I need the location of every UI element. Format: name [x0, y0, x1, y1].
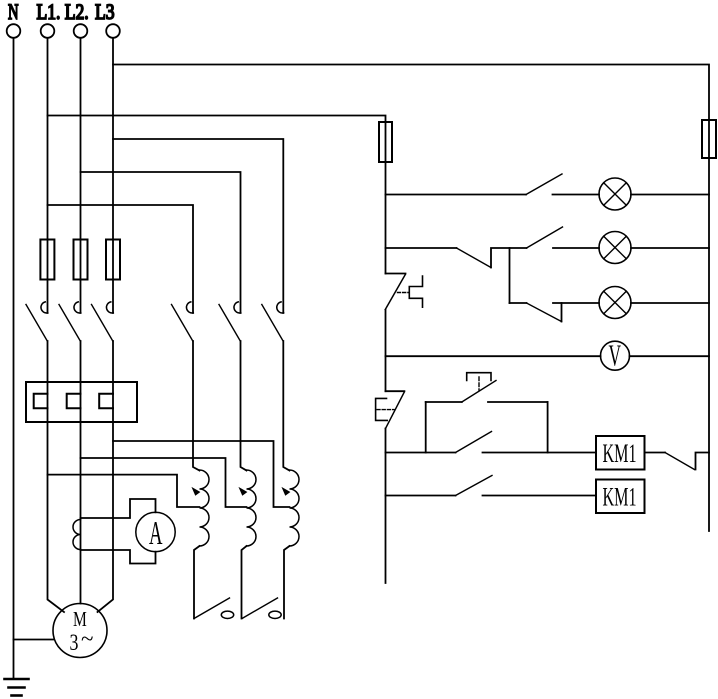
wire L2 contact to thermal relay — [80, 341, 82, 382]
wire L3 to right fuse (top feed) — [113, 65, 709, 159]
fuse FU5 control right — [702, 120, 716, 158]
row 2: wire to lamp — [553, 247, 599, 249]
wire L1 contact to thermal relay — [47, 341, 49, 382]
row 6: wire from left rail — [386, 495, 456, 497]
wire L1 to control fuse — [48, 116, 386, 163]
svg-text:V: V — [609, 340, 622, 373]
stub row3 — [561, 303, 563, 322]
wire loop left vertical — [425, 402, 427, 453]
thermal relay FR heater A — [34, 382, 48, 422]
fuse FU4 control left — [379, 122, 392, 162]
wire tap L3 to autotransformer 3 — [113, 441, 290, 507]
svg-text:L2.: L2. — [65, 0, 89, 24]
ground — [5, 679, 29, 696]
wire left control rail upper — [385, 162, 387, 274]
thermal relay FR heater C — [99, 382, 113, 422]
wire contact to coil 1 — [193, 341, 200, 471]
autotransformer coil T2 — [240, 470, 257, 546]
switch SA2 on left rail — [376, 391, 405, 428]
wire coil 1 bottom — [194, 546, 200, 619]
wire L3 contact to thermal relay — [112, 341, 114, 382]
wire loop right vertical — [547, 402, 549, 453]
row 3: wire lamp to right rail — [631, 302, 709, 304]
voltmeter V — [601, 340, 630, 373]
current transformer on L2 — [73, 520, 81, 550]
svg-text:L1.: L1. — [37, 0, 61, 24]
contactor KM main contact phase C — [262, 302, 284, 341]
thermal relay FR box — [26, 382, 137, 422]
svg-text:N: N — [8, 0, 19, 25]
wire L2 vertical upper — [80, 38, 82, 313]
breaker contact QS phase B — [59, 302, 81, 341]
wire contact to coil 3 — [283, 341, 289, 471]
wire coil 3 bottom — [284, 546, 290, 619]
wire L2 to motor — [80, 422, 82, 604]
contactor coil KM1 — [596, 436, 645, 470]
autotransformer coil T1 — [193, 470, 210, 546]
breaker contact QS phase A — [26, 302, 48, 341]
row 3: wire from drop — [510, 302, 527, 304]
wire left control rail lower — [385, 429, 387, 584]
row 2: wire lamp to right rail — [631, 247, 709, 249]
row 6: wire to coil 2 — [483, 495, 597, 497]
terminal N — [7, 24, 21, 38]
row 5: wire coil to contact — [645, 452, 666, 454]
star shorting contact 2 — [242, 598, 281, 619]
row 2: wire from left rail — [386, 247, 457, 249]
wire coil 2 bottom — [242, 546, 247, 619]
svg-text:KM1: KM1 — [603, 483, 637, 512]
star shorting contact 1 — [194, 598, 234, 619]
lamp HL1 — [599, 178, 631, 210]
wire CT to ammeter bottom — [81, 550, 156, 564]
contact KM1 self-hold NO — [456, 432, 492, 453]
stub row2 — [491, 248, 527, 268]
changeover blade row3 — [527, 303, 562, 322]
wire L1 vertical upper — [47, 38, 49, 313]
wire L3 branch to contact group 2 phase C — [113, 139, 283, 313]
breaker contact QS phase C — [92, 302, 114, 341]
row 1: wire to lamp — [553, 194, 600, 196]
contact KM NO row1 — [526, 174, 562, 195]
row 1: wire lamp to right rail — [631, 194, 709, 196]
terminal L2 — [74, 24, 88, 38]
contact KM1 NO row6 — [456, 476, 493, 496]
wire L3 vertical upper — [112, 38, 114, 313]
wire L2 branch to contact group 2 phase B — [81, 172, 241, 313]
row V: wire from left rail — [386, 355, 601, 357]
svg-text:KM1: KM1 — [603, 439, 637, 468]
lamp HL2 — [599, 232, 631, 264]
wire contact to coil 2 — [241, 341, 247, 471]
relay coil KM1 second — [596, 480, 645, 514]
switch SA1 on left rail — [385, 274, 422, 310]
svg-text:A: A — [149, 514, 163, 551]
lamp HL3 — [599, 287, 631, 319]
fuse FU3 — [106, 240, 120, 280]
ammeter A — [136, 512, 175, 551]
wire button branch right — [488, 401, 548, 403]
wire button branch left — [426, 401, 462, 403]
fuse FU1 — [40, 240, 54, 280]
wire N to motor frame — [14, 639, 54, 641]
wire CT to ammeter top — [81, 499, 156, 518]
svg-text:3: 3 — [70, 631, 79, 656]
wire L1 branch to contact group 2 phase A — [48, 205, 194, 313]
wire drop to row 3 — [509, 248, 511, 303]
motor M1 — [53, 604, 107, 658]
autotransformer coil T3 — [283, 470, 300, 546]
terminal L1 — [41, 24, 55, 38]
thermal relay FR heater B — [67, 382, 81, 422]
start button SB — [462, 373, 496, 402]
fuse FU2 — [74, 240, 88, 280]
terminal L3 — [106, 24, 120, 38]
wire L3 to motor — [98, 422, 114, 612]
row 3: wire to lamp — [553, 302, 599, 304]
row 5: wire to coil — [483, 452, 597, 454]
contactor KM main contact phase B — [219, 302, 241, 341]
row V: wire to right rail — [630, 355, 710, 357]
wire tap L1 to autotransformer 1 — [48, 475, 200, 507]
changeover blade row2 left — [457, 248, 492, 268]
svg-text:L3: L3 — [95, 0, 115, 24]
wire right control rail — [708, 158, 710, 531]
contact KM NO row2 — [527, 227, 563, 248]
wire L1 to motor — [48, 422, 65, 612]
blade row5 right — [665, 453, 695, 470]
wire left control rail middle — [385, 310, 387, 391]
row 1: wire from left rail — [386, 194, 527, 196]
wire N vertical — [13, 38, 15, 679]
stub row5 right — [696, 453, 710, 470]
svg-text:~: ~ — [81, 626, 93, 651]
row 5: wire from left rail — [386, 452, 456, 454]
contactor KM main contact phase A — [172, 302, 194, 341]
wire tap L2 to autotransformer 2 — [81, 458, 247, 507]
